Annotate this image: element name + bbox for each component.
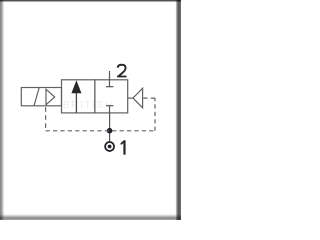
pilot actuator return arrow (right, open triangle) bbox=[128, 97, 133, 99]
pilot line (dashed) right vertical bbox=[154, 98, 156, 131]
pilot line to return arrow bbox=[143, 97, 155, 99]
valve body left square (open position) bbox=[62, 80, 95, 113]
port 1 symbol (circle with dot) bbox=[105, 142, 114, 151]
frame bottom shaded edge bbox=[0, 213, 181, 220]
solenoid diagonal stroke bbox=[34, 88, 39, 106]
valve body right square (closed position) bbox=[95, 80, 128, 113]
label port 1 (drawn glyph) bbox=[120, 140, 125, 154]
pilot line (dashed) left vertical bbox=[45, 107, 47, 131]
frame right shaded edge bbox=[174, 0, 181, 220]
pilot line (dashed) bottom horizontal bbox=[46, 130, 155, 132]
junction (pilot tap) dot bbox=[107, 128, 113, 134]
frame left shaded edge bbox=[0, 0, 5, 220]
frame top line bbox=[0, 0, 181, 2]
label port 2 (drawn glyph) bbox=[117, 65, 126, 77]
solenoid actuator box bbox=[21, 88, 61, 106]
blocked port T bottom bbox=[109, 106, 111, 113]
port 2 line bbox=[109, 71, 111, 80]
flow arrow stem bbox=[75, 93, 77, 113]
port 1 line bbox=[109, 113, 111, 142]
blocked port T top bbox=[109, 80, 111, 87]
solenoid internal pilot arrow bbox=[46, 89, 55, 105]
flow arrow head (filled) bbox=[71, 80, 81, 93]
